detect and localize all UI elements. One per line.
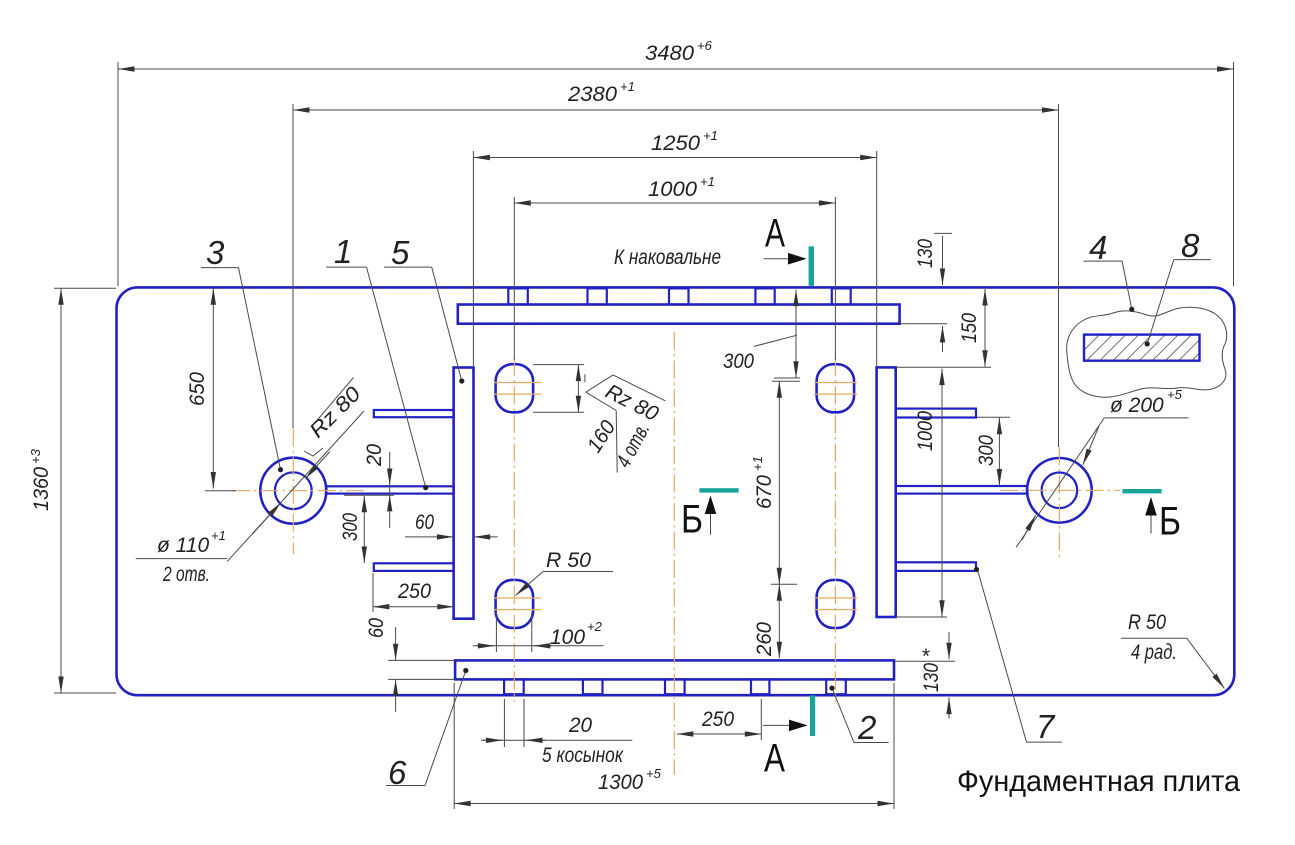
right lower rib bbox=[896, 562, 976, 571]
bottom gusset tab 3 bbox=[665, 679, 685, 694]
svg-text:260: 260 bbox=[753, 622, 776, 657]
svg-text:+3: +3 bbox=[28, 448, 43, 464]
svg-text:+1: +1 bbox=[700, 174, 715, 189]
svg-text:1000: 1000 bbox=[648, 178, 697, 201]
slot hole top-left bbox=[496, 364, 533, 412]
svg-text:250: 250 bbox=[397, 580, 431, 603]
slot TL horizontal centerlines bbox=[494, 382, 541, 384]
section mark B right teal bbox=[1122, 489, 1161, 493]
svg-text:250: 250 bbox=[701, 708, 734, 731]
svg-text:300: 300 bbox=[723, 350, 754, 373]
dim 60 bar width bbox=[405, 536, 453, 538]
section mark B left teal bbox=[699, 488, 738, 492]
svg-text:20: 20 bbox=[363, 444, 386, 467]
svg-text:650: 650 bbox=[186, 372, 209, 406]
svg-text:1300: 1300 bbox=[598, 771, 643, 794]
ext line slot column left bbox=[513, 197, 515, 360]
dim 60 bottom left bbox=[388, 659, 455, 661]
svg-text:К наковальне: К наковальне bbox=[614, 246, 721, 269]
label 160 over 4 holes rotated bbox=[616, 411, 617, 473]
svg-text:+5: +5 bbox=[646, 766, 662, 781]
svg-text:Б: Б bbox=[1159, 500, 1181, 544]
right circle horizontal centerline bbox=[1000, 489, 1120, 491]
right circle vertical centerline bbox=[1058, 447, 1060, 558]
svg-text:ø 110: ø 110 bbox=[157, 534, 209, 557]
bottom flange strip bbox=[455, 660, 894, 679]
section A top arrow bbox=[764, 258, 789, 260]
right middle rib to circle bbox=[896, 486, 1027, 494]
svg-text:100: 100 bbox=[550, 626, 585, 649]
top gusset tab 2 bbox=[588, 288, 607, 304]
svg-text:2: 2 bbox=[857, 709, 876, 746]
left circle horizontal centerline bbox=[232, 490, 365, 492]
bottom gusset tab 4 bbox=[751, 679, 769, 694]
svg-text:А: А bbox=[765, 212, 785, 256]
section mark A bottom teal bbox=[810, 695, 815, 736]
dim 1360+3 bbox=[60, 288, 62, 693]
dim 250 bottom bbox=[760, 699, 762, 740]
svg-text:Б: Б bbox=[681, 498, 703, 542]
dim 20 left rib bbox=[389, 452, 391, 485]
dim 3480+6 bbox=[118, 68, 1234, 70]
slot BL horizontal centerlines bbox=[494, 597, 541, 599]
slot hole bottom-left bbox=[496, 580, 533, 628]
top flange strip bbox=[458, 305, 900, 324]
dim 670+1 bbox=[772, 380, 800, 382]
top gusset tab 4 bbox=[755, 288, 774, 304]
svg-text:ø 200: ø 200 bbox=[1110, 394, 1164, 417]
svg-text:4: 4 bbox=[1089, 229, 1107, 266]
svg-text:+6: +6 bbox=[697, 38, 713, 53]
main vertical centerline bbox=[673, 332, 675, 775]
svg-text:R 50: R 50 bbox=[546, 549, 591, 572]
svg-text:4 рад.: 4 рад. bbox=[1131, 641, 1177, 664]
svg-text:7: 7 bbox=[1036, 708, 1056, 745]
svg-text:300: 300 bbox=[975, 435, 998, 466]
slot BR horizontal centerlines bbox=[814, 597, 857, 599]
right anchor circle inner bbox=[1042, 473, 1078, 509]
svg-text:+5: +5 bbox=[1167, 387, 1183, 402]
section A bottom arrow bbox=[763, 724, 789, 726]
bottom gusset tab 1 bbox=[504, 679, 524, 694]
dim 130 top right bbox=[934, 232, 952, 234]
right vertical channel bar bbox=[877, 367, 896, 617]
slot column centerline left bbox=[513, 358, 515, 702]
svg-text:670: 670 bbox=[753, 475, 776, 509]
svg-text:60: 60 bbox=[415, 511, 434, 534]
dim 20 gussets bbox=[503, 699, 505, 747]
svg-text:1360: 1360 bbox=[30, 467, 53, 511]
bottom gusset tab 2 bbox=[583, 679, 603, 694]
right anchor circle outer bbox=[1027, 458, 1092, 523]
slot hole top-right bbox=[817, 364, 855, 412]
left anchor circle outer bbox=[260, 458, 326, 524]
dim 1000+1 bbox=[514, 202, 835, 204]
svg-text:1: 1 bbox=[334, 233, 352, 270]
ext line plate left bbox=[117, 62, 119, 286]
svg-text:60: 60 bbox=[365, 618, 388, 638]
left lower rib bbox=[374, 563, 454, 571]
top gusset tab 1 bbox=[508, 288, 528, 304]
dim 250 left bbox=[372, 573, 374, 612]
anvil pad hatched section 8 bbox=[1084, 335, 1200, 361]
ext line right circle axis bbox=[1058, 104, 1060, 447]
dim 650 bbox=[212, 288, 214, 488]
dim 1250+1 bbox=[473, 157, 876, 159]
svg-text:2380: 2380 bbox=[567, 83, 617, 106]
svg-text:150: 150 bbox=[958, 313, 981, 343]
right top rib bbox=[896, 409, 976, 418]
svg-text:R 50: R 50 bbox=[1128, 611, 1166, 634]
dim 300 top center bbox=[795, 290, 797, 378]
top gusset tab 3 bbox=[669, 288, 689, 304]
pocket blob freeform bbox=[1067, 307, 1227, 397]
svg-text:1000: 1000 bbox=[914, 411, 937, 451]
svg-text:А: А bbox=[764, 737, 785, 781]
section B right arrow bbox=[1150, 515, 1152, 534]
svg-text:3480: 3480 bbox=[645, 42, 694, 65]
dim 150 bbox=[896, 366, 991, 368]
svg-text:+2: +2 bbox=[587, 619, 603, 634]
dim 100+2 slot width bbox=[495, 612, 497, 652]
svg-text:*: * bbox=[921, 645, 930, 668]
left vertical channel bar bbox=[454, 368, 474, 619]
svg-text:+1: +1 bbox=[750, 456, 765, 471]
svg-text:300: 300 bbox=[339, 513, 362, 541]
ext line left circle axis bbox=[292, 104, 294, 428]
dim 300 right bbox=[977, 416, 1010, 418]
svg-text:130: 130 bbox=[914, 239, 937, 268]
dim 300 left bbox=[344, 494, 394, 496]
svg-text:3: 3 bbox=[206, 234, 225, 271]
slot hole bottom-right bbox=[817, 580, 855, 628]
section B left arrow bbox=[710, 512, 712, 535]
dim 1000 right bbox=[896, 616, 947, 618]
slot column centerline right bbox=[834, 358, 836, 702]
top gusset tab 5 bbox=[832, 288, 851, 304]
ext line slot column right bbox=[834, 197, 836, 360]
svg-text:Фундаментная плита: Фундаментная плита bbox=[957, 765, 1240, 798]
svg-text:5 косынок: 5 косынок bbox=[542, 744, 624, 767]
left middle rib to circle bbox=[326, 486, 454, 493]
ext line plate right bbox=[1233, 62, 1235, 286]
svg-text:2 отв.: 2 отв. bbox=[162, 563, 210, 586]
roughness note Rz 80 right bbox=[584, 374, 586, 382]
dim 130 bottom right with asterisk bbox=[894, 660, 955, 662]
svg-text:+1: +1 bbox=[703, 128, 718, 143]
dim 1300+5 bbox=[453, 683, 455, 809]
dim 160 slot height bbox=[533, 364, 584, 366]
left top rib bbox=[374, 410, 454, 417]
ext line left bar inner face bbox=[472, 151, 474, 366]
svg-text:+1: +1 bbox=[620, 79, 635, 94]
dim 260 bbox=[778, 584, 780, 658]
svg-text:+1: +1 bbox=[211, 528, 226, 543]
left anchor circle inner bbox=[275, 472, 312, 509]
dim 1360+3 ticks bbox=[54, 287, 116, 289]
foundation plate outline bbox=[117, 287, 1235, 695]
svg-text:5: 5 bbox=[391, 234, 410, 271]
roughness mark Rz 80 left bbox=[304, 448, 323, 456]
bottom gusset tab 5 bbox=[826, 679, 846, 694]
svg-text:20: 20 bbox=[568, 714, 592, 737]
section mark A top teal bbox=[809, 246, 814, 286]
svg-text:1250: 1250 bbox=[651, 132, 700, 155]
leader phi110 diagonal through left circle bbox=[227, 411, 364, 562]
left circle vertical centerline bbox=[292, 429, 294, 555]
leader phi200 diagonal through right circle bbox=[1016, 418, 1104, 548]
dim 2380+1 bbox=[293, 109, 1059, 111]
ext line right bar inner face bbox=[876, 151, 878, 366]
svg-text:8: 8 bbox=[1181, 227, 1200, 264]
slot TR horizontal centerlines bbox=[814, 382, 857, 384]
